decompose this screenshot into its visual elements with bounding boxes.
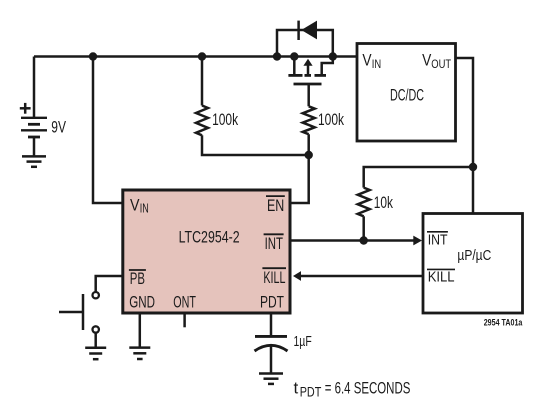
svg-text:DC/DC: DC/DC [390, 85, 424, 104]
svg-text:ONT: ONT [173, 292, 196, 311]
svg-text:PDT: PDT [300, 384, 322, 399]
svg-text:100k: 100k [318, 110, 344, 129]
svg-text:V: V [422, 51, 431, 69]
svg-text:INT: INT [265, 234, 283, 253]
svg-text:V: V [130, 195, 140, 214]
svg-text:V: V [362, 51, 371, 69]
svg-text:PDT: PDT [260, 292, 284, 311]
svg-text:10k: 10k [374, 193, 394, 212]
svg-text:9V: 9V [51, 118, 66, 137]
svg-text:INT: INT [428, 233, 448, 249]
svg-text:2954 TA01a: 2954 TA01a [484, 318, 523, 328]
svg-text:IN: IN [372, 57, 381, 71]
svg-text:100k: 100k [212, 110, 238, 129]
svg-text:KILL: KILL [428, 269, 455, 285]
svg-text:OUT: OUT [431, 57, 451, 71]
svg-text:GND: GND [129, 292, 155, 311]
svg-text:PB: PB [130, 269, 145, 288]
svg-text:LTC2954-2: LTC2954-2 [179, 228, 240, 247]
svg-text:µP/µC: µP/µC [457, 248, 491, 264]
svg-text:t: t [294, 378, 299, 397]
svg-text:IN: IN [140, 202, 149, 216]
svg-text:1µF: 1µF [294, 333, 312, 350]
svg-text:= 6.4 SECONDS: = 6.4 SECONDS [325, 378, 411, 397]
svg-text:KILL: KILL [263, 268, 285, 287]
svg-text:EN: EN [267, 196, 284, 215]
